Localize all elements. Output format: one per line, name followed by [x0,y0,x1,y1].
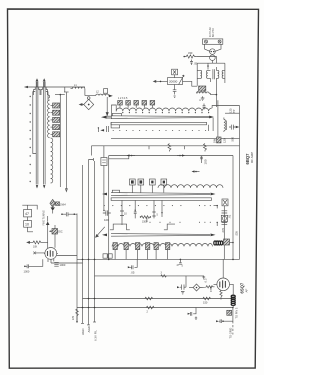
tuning needle 5 shaft [111,234,210,237]
speaker diamond [189,284,200,291]
svg-text:120: 120 [223,138,227,143]
video contact box 1 [113,243,117,260]
tone switch box [172,69,178,75]
turret body right outline [48,92,50,101]
osc coil L15 vertical [224,118,226,133]
IF coil row 1 [116,108,212,111]
mixer hatched diamond [50,199,56,207]
feed1 zigzag end [76,309,79,323]
turret contact box 2 [51,110,60,115]
resistor R40 [183,55,196,58]
wire B+ down from transformer [215,83,217,107]
tuning needle 1 shaft [111,116,210,119]
IF coil row 3 [112,243,212,246]
svg-text:TP: TP [232,109,236,113]
mixer crystal box [56,202,60,206]
wire block2 to V2 [223,245,224,278]
transformer T1 winding 2 [207,70,211,82]
antenna lead B arrow up [43,79,45,87]
capacitor C41 below volume [173,85,177,98]
sound contact box 1 [130,179,136,193]
needle 1 top tab [112,113,121,115]
svg-text:470K: 470K [209,286,213,292]
turret contact box 4 [51,125,60,130]
wire coil to bus4 [232,305,234,307]
osc output wires [51,256,83,264]
arrowhead shaft A down [36,185,38,188]
svg-text:20000: 20000 [169,79,178,83]
svg-text:FINE TUNING: FINE TUNING [42,210,45,225]
wire trimmer [54,225,56,248]
svg-text:C: C [198,99,202,101]
ground symbol power [201,96,205,100]
IF coil row 2 [158,185,223,188]
transformer T1 primary rails [197,63,225,86]
audio tube V2 [214,278,232,291]
bus1 stub cap [179,259,182,265]
svg-text:5: 5 [157,214,159,217]
bus 2 heater [95,275,205,277]
turret coil upper half [48,100,50,138]
output hatched box [224,239,230,245]
turret top junction [55,94,65,96]
svg-text:10K: 10K [33,246,38,249]
node at rail [230,242,234,244]
wire choke to B+ rail [211,93,217,94]
block2 top step [109,156,129,159]
socket circle box [221,215,227,221]
wire L2 down arrow [106,97,108,116]
node tick [161,212,162,217]
column node tick [214,205,218,208]
output line down [224,308,233,322]
bus4 inline resistor [146,306,154,309]
fine tuning stem [47,216,49,248]
bus4 drop capacitor [188,308,198,320]
wire volume to power [183,81,198,86]
resistor R21 [140,216,151,219]
transformer T1 winding 4 [222,70,225,78]
no-connection X [33,252,45,255]
wire to transformer center [211,61,213,64]
AGC rail [92,145,240,147]
IF strip contact box 3 [134,101,139,108]
feed2 end tick [81,322,84,324]
svg-text:270: 270 [221,228,225,233]
filament cap pair [177,276,186,294]
turret contact box 5 [51,132,60,137]
transformer T1 core [213,69,215,79]
RF coil L1 top [71,87,86,89]
svg-text:.005: .005 [236,231,239,236]
turret right rail 1 [59,95,61,187]
svg-text:.05: .05 [194,62,198,66]
arrow dot stub [192,170,200,172]
antenna input wire [25,86,86,88]
svg-text:10: 10 [124,213,127,216]
needle 3 left arrowhead [102,193,107,196]
svg-text:47: 47 [25,212,29,216]
coupling capacitor C15 [229,125,235,130]
top cap stub [203,104,206,110]
B plus rail right [239,106,241,260]
feed4 end tick [93,321,96,323]
IF strip contact box 2 [126,101,131,108]
resistor box R10 [101,158,107,166]
video contact box 4 [146,243,150,260]
antenna lead A arrow up [36,79,38,87]
rail left corner down [91,146,93,156]
coil row 1 tap dots [122,112,209,113]
tuning needle 4 bar [111,198,211,201]
tuning needle 3 shaft [111,193,210,196]
svg-text:500: 500 [231,137,235,142]
wire diamond left arrow [80,104,84,106]
svg-text:AGC: AGC [81,328,85,335]
output dashed continuation [232,321,234,334]
arrowhead L2 right [109,95,113,98]
vertical feed line 1 [76,214,78,323]
peaking coil dark spiral [214,241,223,245]
svg-text:1 2 3 4 5: 1 2 3 4 5 [118,97,128,100]
stub verticals under bar [122,200,162,222]
column capacitor bars 2 [222,223,228,225]
bus2 inline resistor [161,275,167,277]
svg-text:1000: 1000 [24,270,30,274]
wire L1 down [84,89,86,96]
needle 5 left arrowhead [102,234,107,237]
right column wire [223,206,225,239]
sound contact box 4 [161,179,167,193]
capacitor C40 stub [190,60,193,66]
needle 1 right arrowhead [209,116,214,119]
stub capacitor C22 [120,208,124,226]
IF strip contact box 4 [142,101,147,108]
top right corner wire [216,105,239,107]
needle 5 right arrowhead [211,234,216,237]
input bracket B [41,88,47,96]
transformer T1 winding 1 [197,70,201,78]
wire R1 to R2 [27,217,29,221]
AGC keyed box [222,199,228,206]
tone switch contact [173,70,176,73]
alignment dots row 1 [113,130,207,131]
turret top edge [33,91,48,93]
vertical feed line 4 [94,161,96,322]
border frame [8,9,259,368]
turret ground dots [30,96,31,182]
osc box loop top wire [22,205,37,209]
interlock connector J1 [210,49,216,55]
video contact box 3 [136,243,140,260]
tuning needle 2 bar [111,122,206,125]
block1 right vertical a [207,125,209,131]
output coil dark spiral [231,295,235,305]
turret body left outline [33,92,36,154]
svg-text:.05: .05 [131,271,135,275]
wire wiper left with arrow [154,80,168,82]
block2 left edge [108,159,110,260]
svg-text:AGC: AGC [87,325,91,332]
feedthrough capacitor stack [54,262,58,266]
wire diamond to resistor [200,286,206,289]
bus4 junction dots [82,307,234,309]
trimmer box pair b [108,254,112,258]
svg-text:150: 150 [203,301,208,305]
sound contact box 2 [138,179,144,193]
svg-text:10: 10 [25,223,29,227]
vertical feed line 2 [82,165,84,323]
block2 top edge [109,155,233,157]
needle 3 right arrowhead [211,193,216,196]
pointer diagonal [96,227,105,237]
resistor box R2 [24,221,32,228]
svg-text:1N64: 1N64 [60,204,66,207]
input bracket A [34,88,40,96]
wire R2 down right [28,227,33,232]
hatched box small [227,310,232,315]
needle 2 left bracket [111,122,120,128]
takeoff capacitor [216,319,224,323]
dots row left arrow [100,129,104,131]
svg-text:.01: .01 [228,214,232,218]
test point diamond [84,97,94,110]
capacitor C21 [103,210,111,222]
mixer grid coil L2 [85,94,109,96]
block1 left bracket [112,105,117,119]
svg-text:3: 3 [161,272,163,275]
resistor box R1 [24,210,32,217]
video contact box 6 [166,243,170,260]
svg-text:AF: AF [245,288,249,292]
hatched box 120 [217,137,221,143]
osc grid resistor R3 [30,241,48,244]
volume control wiper arrow [179,75,184,85]
svg-text:270: 270 [72,315,75,320]
rail resistor Ra [168,144,171,152]
svg-text:330: 330 [188,51,193,55]
column node tick 2 [217,222,218,226]
alignment dots row 2 [104,205,211,206]
oscillator tube V1 [44,248,58,260]
sound contact box 3 [150,179,156,193]
node volume left [160,81,162,83]
turret right rail 2 [64,87,66,92]
turret coil lower half [51,138,53,183]
link capacitor C8 [61,212,77,216]
heater arrow left pair [127,154,136,156]
svg-text:6.3V FIL: 6.3V FIL [94,330,98,341]
bus 3 AGC [83,298,235,300]
shaft line pair B [43,82,45,185]
svg-text:L1: L1 [74,84,77,87]
svg-text:TO PIN 3: TO PIN 3 [235,307,239,318]
block1 bottom edge [111,137,240,139]
heater arrow right pair [177,154,185,156]
volume control R41 box [168,78,183,85]
IF strip contact box 1 [118,101,123,108]
svg-text:TO GRID: TO GRID [229,328,233,339]
tick line top [64,91,69,93]
svg-text:60 CYC: 60 CYC [211,28,215,37]
svg-text:6.3: 6.3 [204,278,208,282]
bus 4 [77,307,233,309]
svg-text:1500: 1500 [142,221,148,224]
mixer feed line [103,146,105,210]
AC line cord plug P1 [203,39,223,44]
svg-text:RF AMP: RF AMP [250,152,254,163]
decoupling capacitor C30 [128,259,137,274]
needle 1 left arrowhead [101,116,107,119]
block2 right edge [232,156,234,260]
plateau symbol right [164,224,175,230]
svg-text:L2: L2 [96,91,99,94]
column capacitor bars [222,211,228,213]
on-off switch S1 [210,55,216,61]
IF strip contact box 5 [150,101,155,108]
svg-text:5: 5 [182,265,184,268]
bus3 junction dots [88,298,96,300]
osc trimmer box [49,229,57,235]
video contact box 2 [124,243,128,260]
stub capacitor C23 [134,210,137,219]
wire scallop end to right [212,106,216,109]
rail resistor Rb [204,144,207,152]
svg-text:1000: 1000 [60,263,66,267]
wire y113 [225,112,240,114]
wire R40 to B+ line [196,57,216,64]
wire plug to interlock [205,44,221,51]
rail tick 1 [148,146,150,150]
filter choke L30 [196,91,210,93]
feed 3 top tick [89,158,94,161]
svg-text:100: 100 [104,218,109,222]
V2 cathode resistor [220,291,222,300]
V2 grid resistor [206,286,215,288]
needle 3 top tab [112,190,119,192]
capacitor under bracket [106,126,108,132]
junction node B+ [216,94,218,96]
vertical feed line 3 [88,160,90,325]
bus1 junction dots [82,259,234,261]
bus3 inline resistor right [203,297,211,300]
plateau symbol left [110,224,130,230]
shaft line pair A [36,82,38,185]
block1 right vertical b [212,118,214,131]
arrowhead shaft B down [43,185,45,188]
arrowhead antenna left [25,86,28,88]
svg-text:100: 100 [204,159,208,164]
junction node [207,63,209,69]
mixer arrow dark [51,207,55,210]
rail tick 2 [184,146,186,150]
bus2 end tick [202,276,207,283]
rectifier stack hatched box [199,86,206,91]
svg-text:OSC: OSC [57,230,63,234]
wire V2 plate to coil [232,284,234,295]
fine tuning arrow [46,222,50,226]
turret contact box 1 [51,103,60,108]
trimmer box pair a [103,254,107,258]
svg-text:1W: 1W [213,139,217,143]
resistor 100ohm vertical [200,156,208,165]
video contact box 5 [154,243,158,260]
bus 1 B plus [77,258,240,260]
block1 right vertical c [217,100,219,138]
bus3 inline resistor left [145,297,153,300]
osc grid arrow [27,241,30,243]
grid cap box [104,89,108,94]
stub tick left [98,127,99,132]
transformer T1 winding 3 [216,67,219,83]
svg-text:2: 2 [147,311,149,314]
long line to mixer area [65,92,67,191]
tube V1 pins below [48,259,54,263]
coil core tick [225,121,227,131]
alignment dots row 3 [149,222,210,223]
wire mixer down [52,211,54,214]
stub capacitor C24 [152,209,155,219]
bypass capacitor C5 [24,259,43,268]
turret contact box 3 [51,117,60,122]
arrowhead C15 to rail [236,126,240,129]
feed3 end tick [87,324,90,326]
